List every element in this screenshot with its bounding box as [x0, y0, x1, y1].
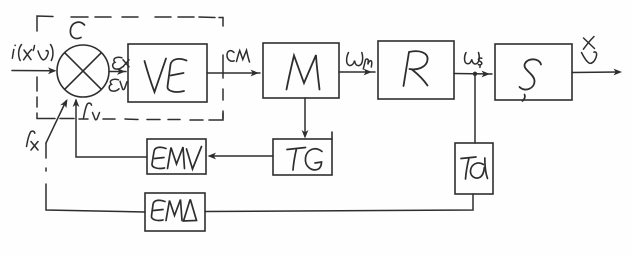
- dashed boundary box C: [37, 16, 223, 120]
- block VE: [128, 44, 207, 102]
- block R: [378, 41, 454, 99]
- label i(x,v): [12, 45, 53, 61]
- label R: [404, 51, 428, 86]
- label TG: [287, 148, 322, 171]
- summing junction: [57, 45, 109, 97]
- label r_v: [84, 103, 100, 120]
- wire VE to M: [207, 70, 260, 77]
- label omega_m: [347, 53, 372, 70]
- wire EMD left and up (r_x path, partly faint): [46, 143, 145, 212]
- label omega_s: [465, 53, 482, 68]
- wire M to R: [339, 69, 375, 76]
- wire summing junction to VE: [109, 68, 126, 75]
- label epsilon_v: [109, 79, 127, 91]
- label VE: [145, 59, 187, 93]
- wire diagonal r_x into summing junction: [46, 99, 68, 143]
- label epsilon_x: [113, 57, 129, 69]
- wire EMV left then up to summing junction (r_v path): [73, 99, 147, 158]
- wire TG to EMV: [208, 153, 274, 160]
- label x output: [583, 37, 594, 50]
- wire R to S: [454, 71, 492, 78]
- block EMD: [145, 193, 205, 231]
- label r_x: [27, 131, 39, 150]
- label EMV: [152, 147, 202, 170]
- block Td: [455, 143, 493, 194]
- label v output: [582, 52, 597, 63]
- wire junction down to Td: [474, 74, 476, 143]
- wire S to output: [572, 69, 622, 76]
- label M: [287, 55, 320, 90]
- wire M down to TG: [302, 98, 309, 139]
- block M: [263, 43, 339, 98]
- block TG: [273, 132, 332, 175]
- label S comma: [523, 95, 525, 102]
- label C: [70, 22, 84, 38]
- label Td: [461, 157, 488, 179]
- node junction after R: [473, 72, 477, 76]
- wire input to summing junction: [12, 67, 57, 74]
- wire Td down and left to EMD: [205, 194, 473, 212]
- block S: [495, 44, 572, 100]
- label CM: [227, 50, 250, 62]
- block EMV: [147, 139, 206, 174]
- label EMD: [151, 200, 196, 222]
- label S: [520, 59, 542, 89]
